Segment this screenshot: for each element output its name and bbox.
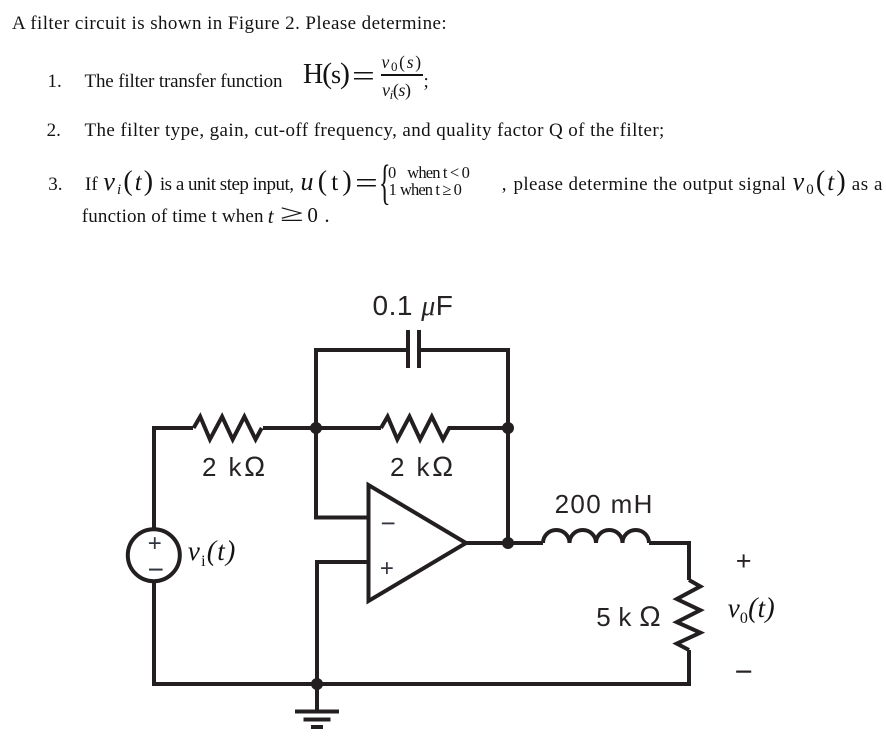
label vo(t): [728, 595, 775, 632]
resistor R3 vertical zigzag: [677, 580, 701, 650]
ground junction dot: [311, 678, 323, 690]
source V1 circle: [128, 529, 180, 581]
item 1 H(s) =: [303, 60, 349, 89]
resistor R1 zigzag: [194, 417, 262, 440]
cap loop top wire right: [421, 348, 510, 352]
item 3: u(t): [301, 169, 356, 196]
bottom wire: [152, 682, 689, 686]
ground bar 1: [295, 710, 339, 714]
piecewise row 1 text: [407, 165, 469, 182]
right rail lower: [687, 650, 691, 686]
label 200 mH: [555, 491, 654, 517]
heading line: [12, 14, 447, 33]
resistor R2 zigzag: [381, 417, 452, 440]
output plus sign: [736, 548, 752, 575]
item 3: If: [85, 175, 98, 194]
item 3: as a: [852, 175, 883, 194]
cap loop right vertical: [506, 350, 510, 428]
ground bar 3: [311, 725, 323, 729]
left rail lower: [152, 582, 156, 687]
output wire to inductor: [466, 541, 543, 545]
fraction bar: [381, 74, 423, 76]
right rail upper: [687, 541, 691, 580]
output node dot: [502, 537, 514, 549]
capacitor C1 left plate: [406, 330, 410, 368]
label 0.1 uF: [373, 292, 454, 321]
piecewise row 2 digit: [389, 182, 397, 199]
label 5 kOhm: [596, 604, 661, 630]
label vi(t): [188, 538, 237, 575]
left rail upper: [152, 430, 156, 528]
item 2 text: [85, 121, 665, 140]
ground bar 2: [304, 718, 331, 722]
output minus sign: [735, 656, 753, 687]
minus input wire from node A: [316, 428, 368, 518]
node B junction dot: [502, 422, 514, 434]
item 3: comma after piecewise: [502, 175, 507, 194]
wire left to R1: [152, 426, 193, 430]
item 3: vi(t) math: [103, 169, 155, 203]
piecewise row 2 text: [400, 182, 461, 199]
cap loop top wire left: [314, 348, 406, 352]
item 3 line 2: [82, 207, 269, 226]
item 1 text: [85, 72, 283, 91]
fraction numerator v0(s): [382, 54, 423, 76]
capacitor C1 right plate: [417, 330, 421, 368]
wire R1 to node A: [263, 426, 316, 430]
ground stem: [315, 684, 319, 711]
item 3: equals: [355, 170, 370, 197]
item 3: please determine ...: [514, 175, 787, 194]
source plus sign: [148, 532, 162, 556]
item 1 number: [48, 72, 62, 91]
node A junction dot: [310, 422, 322, 434]
wire inductor to right rail: [649, 541, 691, 545]
op-amp plus sign: [380, 557, 394, 581]
op-amp U1 triangle: [369, 485, 467, 601]
item 3: v0(t) math: [793, 169, 848, 203]
label 2 kOhm left: [202, 454, 268, 480]
label 2 kOhm right: [390, 454, 456, 480]
item 3: is a unit step input,: [160, 175, 294, 194]
piecewise brace: [379, 158, 390, 207]
source minus sign: [148, 556, 164, 584]
op-amp minus sign: [381, 510, 396, 536]
piecewise row 1 digit: [388, 165, 396, 182]
node B to output node: [506, 428, 510, 543]
fraction denominator vi(s): [382, 81, 411, 104]
wire node A to R2: [316, 426, 381, 430]
item 3 number: [48, 175, 62, 194]
item 2 number: [47, 121, 61, 140]
cap loop left vertical: [314, 350, 318, 430]
wire R2 to node B: [452, 426, 508, 430]
plus input wire from ground rail: [317, 562, 368, 684]
inductor L1 humps: [543, 530, 649, 543]
semicolon: [424, 72, 429, 91]
